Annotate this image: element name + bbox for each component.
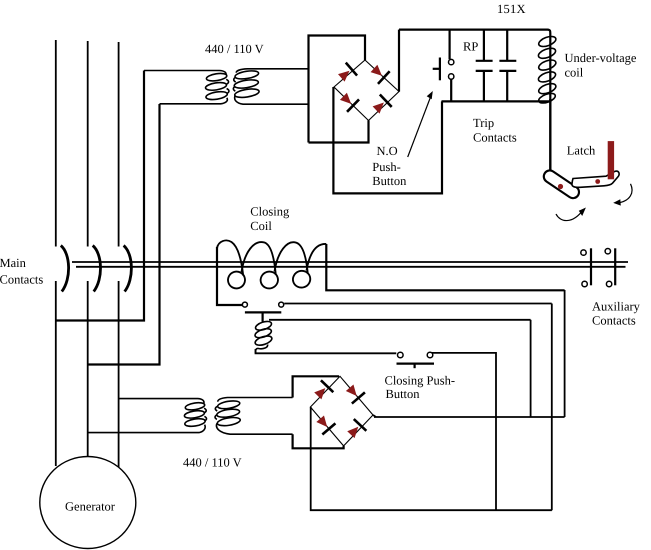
svg-text:Main: Main — [0, 256, 27, 270]
svg-text:Generator: Generator — [65, 500, 116, 514]
svg-text:Push-: Push- — [372, 160, 400, 174]
svg-text:Closing Push-: Closing Push- — [385, 374, 456, 388]
svg-text:Contacts: Contacts — [0, 273, 43, 287]
svg-text:Contacts: Contacts — [592, 314, 636, 328]
svg-text:Trip: Trip — [473, 116, 494, 130]
svg-text:RP: RP — [463, 40, 478, 54]
svg-text:Auxiliary: Auxiliary — [592, 300, 641, 314]
svg-text:Button: Button — [372, 174, 407, 188]
svg-text:Coil: Coil — [250, 219, 272, 233]
svg-text:440 / 110 V: 440 / 110 V — [183, 456, 242, 470]
svg-text:Latch: Latch — [567, 144, 596, 158]
svg-text:coil: coil — [565, 65, 584, 79]
svg-text:440 / 110 V: 440 / 110 V — [205, 42, 264, 56]
svg-text:Under-voltage: Under-voltage — [565, 51, 637, 65]
svg-text:Contacts: Contacts — [473, 131, 517, 145]
svg-text:N.O: N.O — [377, 144, 398, 158]
svg-text:Button: Button — [386, 387, 421, 401]
svg-text:151X: 151X — [497, 2, 526, 16]
svg-text:Closing: Closing — [250, 205, 290, 219]
